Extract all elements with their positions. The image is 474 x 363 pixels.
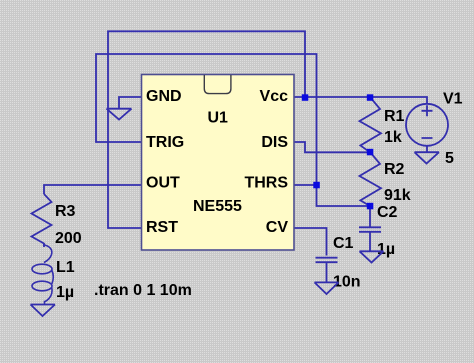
IC notch bbox=[204, 75, 231, 94]
wire DIS bbox=[294, 142, 370, 152]
svg-text:.tran 0 1 10m: .tran 0 1 10m bbox=[94, 282, 192, 299]
svg-text:Vcc: Vcc bbox=[260, 88, 289, 105]
IC U1 body bbox=[142, 75, 295, 251]
resistor R3 bbox=[32, 194, 52, 247]
junction node R2/C2 bbox=[367, 203, 374, 210]
ground under L1 bbox=[31, 305, 56, 317]
svg-text:R1: R1 bbox=[384, 108, 405, 125]
svg-text:THRS: THRS bbox=[244, 174, 288, 191]
svg-text:CV: CV bbox=[266, 219, 289, 236]
svg-text:L1: L1 bbox=[56, 259, 75, 276]
ground under V1 bbox=[415, 152, 440, 163]
wire GND pin bbox=[119, 97, 142, 109]
junction node Vcc/R1 bbox=[367, 94, 374, 101]
svg-text:C1: C1 bbox=[333, 235, 354, 252]
voltage source V1 bbox=[406, 104, 448, 152]
svg-text:91k: 91k bbox=[384, 187, 411, 204]
inductor L1 bbox=[32, 245, 53, 305]
svg-text:5: 5 bbox=[445, 150, 454, 167]
svg-text:C2: C2 bbox=[377, 204, 398, 221]
wire THRS bbox=[294, 184, 317, 186]
capacitor C1 bbox=[316, 258, 338, 282]
ground under C2 bbox=[360, 251, 384, 262]
wire TRIG to THRS loop bbox=[96, 54, 317, 185]
wire CV to C1 bbox=[294, 228, 327, 256]
svg-text:TRIG: TRIG bbox=[146, 134, 184, 151]
resistor R2 bbox=[360, 152, 382, 206]
wire OUT bbox=[44, 185, 142, 194]
svg-text:V1: V1 bbox=[443, 91, 463, 108]
svg-text:RST: RST bbox=[146, 219, 178, 236]
svg-text:R3: R3 bbox=[55, 203, 76, 220]
svg-text:1µ: 1µ bbox=[56, 284, 74, 301]
wire THRS to C2 bbox=[317, 185, 371, 206]
svg-text:U1: U1 bbox=[208, 110, 229, 127]
svg-text:OUT: OUT bbox=[146, 174, 180, 191]
svg-text:GND: GND bbox=[146, 88, 182, 105]
capacitor C2 bbox=[359, 206, 381, 251]
resistor R1 bbox=[360, 97, 382, 152]
junction node THRS bbox=[313, 182, 320, 189]
svg-text:1k: 1k bbox=[384, 129, 402, 146]
ground near GND pin bbox=[107, 109, 132, 120]
ground under C1 bbox=[315, 282, 339, 294]
wire Vcc rail bbox=[294, 97, 427, 104]
svg-text:R2: R2 bbox=[384, 161, 405, 178]
junction node R1/R2/DIS bbox=[367, 149, 374, 156]
svg-text:200: 200 bbox=[55, 230, 82, 247]
svg-text:DIS: DIS bbox=[261, 134, 288, 151]
wire RST to Vcc loop bbox=[108, 31, 305, 228]
junction node Vcc/RST bbox=[302, 94, 309, 101]
svg-text:NE555: NE555 bbox=[193, 198, 242, 215]
